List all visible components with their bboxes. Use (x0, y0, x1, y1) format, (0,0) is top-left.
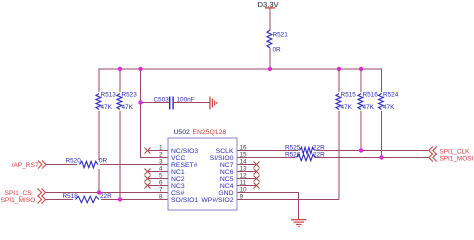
junction rail R523 (118, 67, 122, 71)
svg-text:47K: 47K (363, 104, 375, 111)
junction rail R521 (268, 67, 272, 71)
wire R521 to rail (270, 48, 271, 69)
port SPI1_MISO (1, 196, 46, 205)
svg-text:SPI1_CLK: SPI1_CLK (440, 149, 471, 156)
pin 2 VCC (159, 152, 186, 163)
svg-text:14: 14 (240, 159, 248, 166)
no-connect X pin 12 (254, 176, 260, 182)
svg-text:WP#/SIO2: WP#/SIO2 (201, 197, 233, 204)
no-connect X pin 1 (145, 148, 151, 154)
junction rail VCC (138, 67, 142, 71)
no-connect X pin 5 (145, 176, 151, 182)
junction R513/CS (97, 190, 101, 194)
resistor R523 (116, 92, 137, 112)
svg-text:C503: C503 (154, 96, 170, 103)
svg-text:NC4: NC4 (220, 183, 234, 190)
pin 11 NC4 (220, 180, 257, 191)
svg-text:SI/SIO0: SI/SIO0 (210, 155, 234, 162)
svg-text:3: 3 (159, 159, 163, 166)
wire SPI1_CS to CS# pin 7 (46, 192, 169, 193)
svg-text:SO/SIO1: SO/SIO1 (171, 197, 198, 204)
svg-text:U502: U502 (174, 129, 190, 136)
wire VCC horizontal to pin 2 (140, 157, 169, 158)
svg-text:1: 1 (159, 145, 163, 152)
svg-text:22R: 22R (313, 145, 325, 152)
svg-text:R524: R524 (383, 92, 399, 99)
resistor R515 (335, 92, 356, 112)
svg-text:R520: R520 (66, 158, 82, 165)
wire SCLK pin16 to port (237, 150, 429, 151)
wire power to R521 (270, 8, 271, 31)
svg-text:47K: 47K (101, 104, 113, 111)
wire GND pin10 horizontal (237, 192, 299, 193)
svg-text:R518: R518 (63, 193, 79, 200)
svg-text:R526: R526 (285, 152, 301, 159)
svg-text:7: 7 (159, 187, 163, 194)
svg-text:NC7: NC7 (220, 162, 234, 169)
resistor R513 (95, 92, 116, 112)
wire SI/SIO0 pin15 to port (237, 157, 429, 158)
power symbol bar (265, 7, 275, 8)
svg-text:NC3: NC3 (171, 183, 185, 190)
wire top rail (99, 69, 383, 70)
wire VCC vertical (140, 69, 141, 159)
svg-text:CS#: CS# (171, 190, 184, 197)
svg-text:R515: R515 (341, 92, 357, 99)
svg-text:NC1: NC1 (171, 169, 185, 176)
svg-text:13: 13 (240, 166, 248, 173)
svg-text:/AP_RST: /AP_RST (12, 162, 39, 169)
wire GND vertical (298, 192, 299, 220)
junction R524/SI (379, 155, 383, 159)
no-connect X pin 6 (145, 183, 151, 189)
svg-text:R513: R513 (101, 92, 117, 99)
svg-text:SPI1_MISO: SPI1_MISO (1, 197, 36, 204)
wire R515 vertical (339, 69, 340, 200)
pin 15 SI/SIO0 (210, 152, 247, 163)
pin 7 CS# (159, 187, 185, 198)
op IC U502 box (168, 129, 237, 210)
svg-text:0R: 0R (99, 158, 108, 165)
svg-text:100nF: 100nF (177, 96, 195, 103)
port SPI1_MOSI (429, 154, 474, 163)
svg-text:EN25Q128: EN25Q128 (193, 129, 227, 136)
svg-text:R516: R516 (363, 92, 379, 99)
junction rail R515 (337, 67, 341, 71)
svg-text:47K: 47K (383, 104, 395, 111)
svg-text:22R: 22R (313, 152, 325, 159)
pin 6 NC3 (148, 180, 185, 191)
wire WP# pin9 horizontal (237, 199, 339, 200)
capacitor C503 (141, 96, 210, 109)
svg-text:GND: GND (218, 190, 233, 197)
wire R516 vertical (361, 69, 362, 151)
pin 3 RESET# (159, 159, 198, 170)
svg-text:5: 5 (159, 173, 163, 180)
resistor R516 (357, 92, 378, 112)
resistor R521 (267, 30, 288, 54)
pin 8 SO/SIO1 (159, 194, 198, 205)
pin 16 SCLK (216, 145, 247, 156)
svg-text:12: 12 (240, 173, 248, 180)
svg-text:47K: 47K (122, 104, 134, 111)
port SPI1_CS (5, 189, 46, 198)
ground (GND pin) (291, 219, 307, 227)
svg-text:R521: R521 (273, 32, 289, 39)
svg-text:R525: R525 (285, 145, 301, 152)
resistor R525 (285, 145, 325, 155)
resistor R524 (378, 92, 399, 112)
pin 13 NC6 (220, 166, 257, 177)
svg-text:R523: R523 (122, 92, 138, 99)
pin 9 WP#/SIO2 (201, 194, 243, 205)
no-connect X pin 4 (145, 169, 151, 175)
no-connect X pin 11 (254, 183, 260, 189)
ground (capacitor, rotated) (209, 97, 217, 110)
junction R516/SCLK (359, 148, 363, 152)
junction R523/MISO (118, 197, 122, 201)
svg-text:0R: 0R (273, 47, 282, 54)
wire /AP_RST to RESET# pin 3 (46, 164, 169, 165)
pin 1 NC/SIO3 (148, 145, 199, 156)
svg-text:NC/SIO3: NC/SIO3 (171, 148, 198, 155)
svg-text:SPI1_CS: SPI1_CS (5, 190, 33, 197)
svg-text:6: 6 (159, 180, 163, 187)
wire SPI1_MISO to SO/SIO1 pin 8 (46, 199, 169, 200)
pin 5 NC2 (148, 173, 185, 184)
port SPI1_CLK (429, 147, 470, 156)
svg-text:NC6: NC6 (220, 169, 234, 176)
port /AP_RST (12, 161, 47, 170)
resistor R518 (63, 193, 113, 204)
wire R513 vertical (99, 69, 100, 193)
wire R523 vertical (120, 69, 121, 200)
junction rail R516 (359, 67, 363, 71)
svg-text:NC5: NC5 (220, 176, 234, 183)
svg-text:SCLK: SCLK (216, 148, 234, 155)
no-connect X pin 13 (254, 169, 260, 175)
no-connect X pin 14 (254, 162, 260, 168)
svg-text:22R: 22R (100, 193, 112, 200)
junction C503 tap (138, 100, 142, 104)
svg-text:NC2: NC2 (171, 176, 185, 183)
svg-text:11: 11 (240, 180, 247, 187)
pin 10 GND (218, 187, 247, 198)
wire R524 vertical (381, 69, 382, 159)
svg-text:2: 2 (159, 152, 163, 159)
resistor R520 (66, 158, 108, 170)
pin 14 NC7 (220, 159, 257, 170)
pin 4 NC1 (148, 166, 185, 177)
power net D3.3V label (258, 0, 280, 9)
svg-text:VCC: VCC (171, 155, 185, 162)
svg-text:47K: 47K (341, 104, 353, 111)
svg-text:8: 8 (159, 194, 163, 201)
pin 12 NC5 (220, 173, 257, 184)
svg-text:RESET#: RESET# (171, 162, 198, 169)
svg-text:SPI1_MOSI: SPI1_MOSI (440, 156, 474, 163)
svg-text:4: 4 (159, 166, 163, 173)
resistor R526 (285, 152, 325, 162)
